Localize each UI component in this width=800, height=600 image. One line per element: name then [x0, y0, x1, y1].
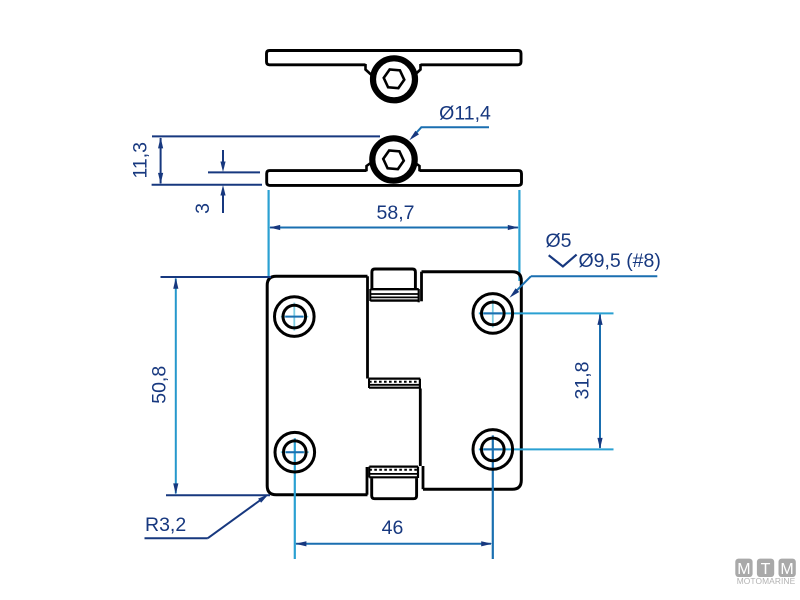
dim 11,3 arrow down — [158, 173, 163, 184]
hole BR circles — [473, 430, 513, 470]
main view left leaf right edge lower — [366, 467, 369, 495]
label 9,5 leader — [514, 276, 531, 293]
dim 50,8 dimension line — [175, 279, 177, 494]
countersink symbol — [549, 255, 577, 267]
dim 50,8 arrow down — [173, 483, 178, 494]
view2 barrel circle — [372, 138, 414, 180]
main view left leaf outline — [267, 276, 367, 495]
svg-text:Ø5: Ø5 — [546, 230, 572, 252]
svg-text:3: 3 — [192, 203, 214, 214]
bottom bend band — [369, 467, 418, 478]
svg-text:11,3: 11,3 — [130, 142, 152, 179]
svg-text:Ø11,4: Ø11,4 — [439, 103, 491, 125]
svg-text:31,8: 31,8 — [572, 362, 594, 400]
main view right leaf outline — [422, 272, 522, 490]
label R3,2 underline — [145, 537, 208, 539]
middle bend band — [369, 379, 420, 389]
label 9,5 underline — [531, 275, 657, 277]
hole BL crosshair + 46 left extension — [281, 438, 309, 559]
main view left leaf right edge upper — [366, 276, 369, 378]
logo MTM square 1 — [735, 559, 752, 577]
dim 3 extension line — [208, 171, 260, 173]
svg-text:46: 46 — [382, 517, 404, 539]
label diameter 11,4 leader — [412, 127, 489, 137]
dim 46 arrow right — [481, 541, 492, 546]
main view right leaf left edge middle — [419, 389, 422, 467]
hole TR circles — [473, 294, 513, 334]
dim 31,8 arrow up — [597, 314, 602, 325]
bottom knuckle tab — [372, 478, 417, 498]
view1 knuckle shoulder right — [415, 64, 421, 75]
dim 3 upper arrow — [222, 150, 224, 164]
dim 11,3 arrow up — [158, 137, 163, 148]
dim 58,7 dimension line — [270, 227, 518, 229]
view2 knuckle shoulder left — [367, 162, 373, 171]
dim 46 dimension line — [296, 543, 491, 545]
view1 barrel circle — [373, 58, 415, 100]
dim 11,3 top extension line — [152, 135, 380, 137]
label R3,2 arrowhead — [258, 494, 268, 503]
dim 11,3 dimension line — [160, 138, 162, 183]
view2 knuckle shoulder right — [414, 162, 420, 171]
dim 31,8 dimension line — [599, 315, 601, 449]
view2 hex socket — [383, 150, 404, 169]
dim 58,7 arrow right — [508, 225, 519, 230]
dim 50,8 top extension line — [161, 276, 272, 278]
svg-text:R3,2: R3,2 — [145, 514, 186, 536]
dim 31,8 arrow down — [597, 438, 602, 449]
svg-text:MOTOMARINE: MOTOMARINE — [737, 576, 796, 586]
hole TR crosshair + 31,8 top extension — [479, 299, 614, 327]
dim 50,8 bottom extension line — [166, 494, 270, 496]
top knuckle bend band — [370, 289, 418, 302]
logo MTM square 2 — [757, 559, 774, 577]
view1 hex socket — [384, 69, 405, 88]
label R3,2 leader — [208, 496, 266, 538]
hole BL circles — [275, 432, 315, 472]
label diameter 11,4 leader arrowhead — [409, 131, 419, 141]
top knuckle tab — [372, 269, 416, 289]
svg-text:58,7: 58,7 — [377, 202, 415, 224]
logo MTM square 3 — [779, 559, 796, 577]
dim 58,7 right extension line — [518, 190, 520, 281]
svg-text:Ø9,5 (#8): Ø9,5 (#8) — [579, 250, 661, 272]
main view right leaf left edge lower — [422, 466, 425, 489]
view1 knuckle shoulder left — [366, 64, 372, 75]
dim 3 lower arrow — [222, 194, 224, 213]
hole BR crosshair + 31,8 bottom extension + 46 right extension — [479, 435, 614, 559]
label 9,5 leader arrowhead — [510, 288, 520, 298]
dim 58,7 left extension line — [268, 190, 270, 281]
main view right leaf left edge upper — [420, 272, 423, 302]
view2 leaf bar (lower edge view) — [267, 171, 522, 186]
dim 11,3 bottom extension line — [152, 184, 262, 186]
svg-text:50,8: 50,8 — [149, 366, 171, 404]
view1 leaf bar (top edge view) — [267, 51, 522, 65]
hole TL crosshair — [281, 303, 309, 331]
hole TL circles — [275, 297, 315, 337]
dim 58,7 arrow left — [269, 225, 280, 230]
dim 46 arrow left — [295, 541, 306, 546]
dim 50,8 arrow up — [173, 278, 178, 289]
